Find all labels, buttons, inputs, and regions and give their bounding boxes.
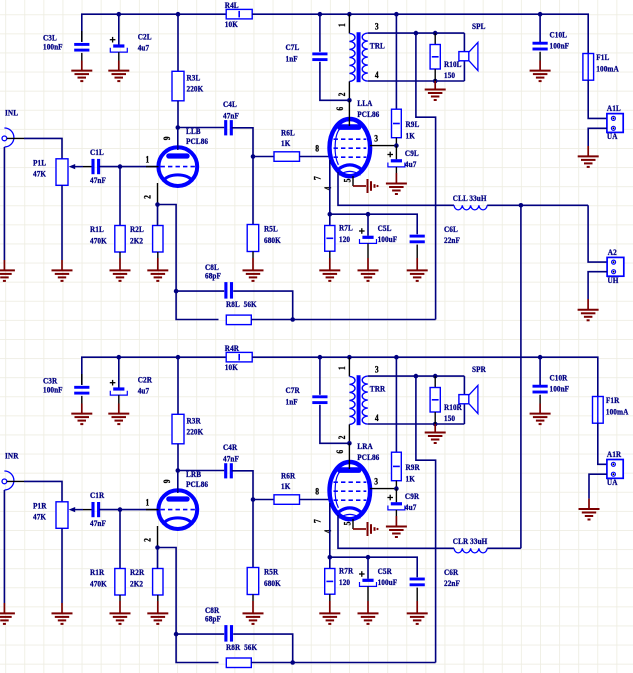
capacitor C8R bbox=[205, 606, 232, 642]
resistor R10R bbox=[430, 376, 462, 424]
svg-text:470K: 470K bbox=[90, 579, 107, 589]
junction bbox=[176, 12, 181, 17]
wire anode to C4 bbox=[178, 470, 225, 472]
wire R5 bottom bbox=[252, 595, 254, 602]
svg-text:47nF: 47nF bbox=[223, 454, 239, 464]
svg-text:100uF: 100uF bbox=[378, 235, 398, 245]
junction bbox=[394, 12, 399, 17]
svg-text:10K: 10K bbox=[225, 363, 239, 373]
svg-text:220K: 220K bbox=[187, 427, 204, 437]
wire R1 top bbox=[119, 167, 121, 226]
transformer TRR bbox=[337, 357, 385, 443]
svg-text:PCL86: PCL86 bbox=[186, 480, 208, 490]
wire pin9 anode bbox=[177, 471, 179, 494]
svg-text:3: 3 bbox=[374, 477, 378, 487]
wire B+ rail right segment bbox=[252, 357, 598, 396]
resistor R2L bbox=[130, 225, 163, 252]
svg-text:C7L: C7L bbox=[286, 43, 300, 53]
svg-text:8: 8 bbox=[315, 487, 319, 497]
junction bbox=[538, 12, 543, 17]
wire pin6 anode bbox=[348, 443, 350, 469]
svg-text:C4R: C4R bbox=[223, 443, 237, 453]
junction bbox=[155, 202, 160, 207]
wire R9 top bbox=[395, 14, 397, 109]
svg-text:R6R: R6R bbox=[281, 471, 295, 481]
wire C4 to grid node bbox=[232, 471, 253, 568]
svg-text:4: 4 bbox=[375, 413, 379, 423]
wire feedback tap bbox=[416, 33, 436, 319]
svg-text:R1L: R1L bbox=[90, 225, 104, 235]
connector A1L bbox=[607, 104, 623, 142]
svg-text:R5L: R5L bbox=[264, 224, 278, 234]
svg-text:CLR 33uH: CLR 33uH bbox=[453, 536, 488, 546]
svg-text:C1R: C1R bbox=[90, 491, 104, 501]
junction anode node bbox=[347, 441, 352, 446]
wire feedback tap bbox=[416, 376, 436, 662]
svg-text:INR: INR bbox=[5, 451, 19, 461]
wire R3 bottom bbox=[177, 444, 179, 471]
connector INR bbox=[2, 451, 24, 490]
svg-text:R2R: R2R bbox=[130, 568, 144, 578]
wire input to pot bbox=[24, 138, 62, 158]
capacitor C2R bbox=[110, 357, 152, 403]
capacitor C5L bbox=[359, 214, 397, 258]
ground bbox=[71, 404, 92, 425]
svg-text:6: 6 bbox=[336, 450, 346, 454]
svg-text:1: 1 bbox=[337, 23, 347, 27]
svg-text:47nF: 47nF bbox=[223, 111, 239, 121]
resistor R7R bbox=[325, 566, 354, 594]
junction bbox=[174, 632, 179, 637]
ground bbox=[578, 299, 599, 320]
junction bbox=[433, 374, 438, 379]
svg-text:7: 7 bbox=[313, 176, 323, 180]
connector A1R bbox=[607, 450, 623, 488]
svg-text:1: 1 bbox=[146, 155, 150, 165]
wire cathode bypass bus bbox=[330, 214, 417, 234]
triode LRB PCL86 section bbox=[143, 470, 208, 542]
svg-text:C9L: C9L bbox=[405, 149, 419, 159]
svg-text:C1L: C1L bbox=[90, 148, 104, 158]
svg-text:LLA: LLA bbox=[357, 99, 372, 109]
resistor R2R bbox=[130, 568, 163, 595]
svg-text:47nF: 47nF bbox=[90, 176, 106, 186]
svg-text:C9R: C9R bbox=[405, 492, 419, 502]
fuse F1L bbox=[583, 53, 619, 81]
svg-text:C6L: C6L bbox=[444, 224, 458, 234]
ground bbox=[0, 260, 15, 281]
svg-text:TRR: TRR bbox=[370, 384, 386, 394]
wire pin7 cathode bbox=[329, 503, 331, 569]
svg-text:47nF: 47nF bbox=[90, 519, 106, 529]
wire pin7 cathode bbox=[329, 160, 331, 226]
wire R3 top bbox=[177, 14, 179, 71]
ground bbox=[353, 522, 379, 536]
svg-text:2K2: 2K2 bbox=[130, 579, 143, 589]
resistor R8L bbox=[226, 300, 257, 325]
speaker SPR bbox=[459, 365, 486, 424]
svg-text:4u7: 4u7 bbox=[405, 159, 416, 169]
junction bbox=[155, 545, 160, 550]
ground bbox=[71, 61, 92, 82]
wire secondary top bbox=[368, 375, 465, 377]
wire pin1 grid bbox=[146, 509, 159, 511]
wire C7 top bbox=[319, 357, 321, 395]
wire R6 to pin8 bbox=[300, 156, 332, 158]
wire secondary bottom bbox=[368, 80, 465, 82]
ground bbox=[358, 258, 379, 281]
svg-text:2: 2 bbox=[337, 93, 347, 97]
ground bbox=[319, 601, 340, 624]
wire R1 bottom bbox=[119, 252, 121, 258]
ground bbox=[319, 258, 340, 281]
wire R2 link bbox=[157, 548, 159, 569]
wire pin5 heater bbox=[352, 519, 354, 529]
capacitor C3R bbox=[43, 374, 89, 404]
svg-text:7: 7 bbox=[313, 519, 323, 523]
svg-text:4: 4 bbox=[375, 70, 379, 80]
wire cathode bus bbox=[158, 548, 219, 663]
capacitor C9L bbox=[387, 146, 418, 173]
svg-text:47K: 47K bbox=[33, 512, 47, 522]
connector INL bbox=[2, 108, 24, 147]
svg-text:SPR: SPR bbox=[472, 365, 486, 375]
junction bbox=[433, 79, 438, 84]
svg-text:100nF: 100nF bbox=[550, 41, 570, 51]
capacitor C4L bbox=[223, 100, 239, 136]
svg-text:1: 1 bbox=[146, 498, 150, 508]
junction anode node bbox=[347, 98, 352, 103]
wire B+ rail right segment bbox=[252, 14, 588, 53]
svg-text:R4R: R4R bbox=[225, 344, 239, 354]
pentode LRA PCL86 section bbox=[313, 442, 379, 534]
ground bbox=[358, 601, 379, 624]
junction bbox=[347, 12, 352, 17]
ground bbox=[110, 258, 131, 281]
svg-text:UA: UA bbox=[607, 477, 618, 487]
wire pin5 heater bbox=[352, 176, 354, 186]
svg-text:1nF: 1nF bbox=[286, 397, 298, 407]
ground bbox=[243, 258, 264, 281]
wire R2 link bbox=[157, 205, 159, 226]
junction bbox=[117, 355, 122, 360]
svg-text:4u7: 4u7 bbox=[138, 386, 149, 396]
svg-text:R8L 56K: R8L 56K bbox=[226, 300, 257, 310]
wire R9 top bbox=[395, 357, 397, 452]
svg-text:2: 2 bbox=[337, 436, 347, 440]
junction bbox=[118, 164, 123, 169]
ground bbox=[52, 603, 73, 624]
wire R7 bottom bbox=[329, 251, 331, 258]
svg-text:TRL: TRL bbox=[370, 41, 385, 51]
ground bbox=[353, 179, 379, 193]
svg-text:R7L: R7L bbox=[339, 223, 353, 233]
svg-text:C10R: C10R bbox=[550, 373, 568, 383]
svg-text:R1R: R1R bbox=[90, 568, 104, 578]
ground bbox=[425, 81, 446, 100]
resistor R7L bbox=[325, 223, 353, 251]
inductor CLL 33uH bbox=[453, 193, 487, 209]
wire pin2 cathode bbox=[157, 526, 159, 548]
junction bbox=[347, 355, 352, 360]
svg-text:150: 150 bbox=[444, 413, 455, 423]
ground bbox=[0, 603, 15, 624]
capacitor C5R bbox=[359, 557, 397, 601]
svg-text:R2L: R2L bbox=[130, 225, 144, 235]
connector A2 bbox=[607, 247, 624, 285]
junction bbox=[117, 12, 122, 17]
resistor R5R bbox=[247, 567, 281, 594]
svg-text:470K: 470K bbox=[90, 236, 107, 246]
junction bbox=[176, 355, 181, 360]
svg-text:2: 2 bbox=[143, 195, 153, 199]
ground bbox=[147, 601, 168, 624]
wire jack shell bbox=[3, 490, 5, 603]
svg-text:R3R: R3R bbox=[187, 416, 201, 426]
svg-text:C4L: C4L bbox=[223, 100, 237, 110]
svg-text:C6R: C6R bbox=[444, 567, 458, 577]
ground bbox=[52, 260, 73, 281]
svg-text:F1L: F1L bbox=[596, 53, 609, 63]
svg-text:10K: 10K bbox=[225, 20, 239, 30]
wire C7 bottom to anode node bbox=[320, 405, 350, 444]
svg-text:22nF: 22nF bbox=[444, 579, 460, 589]
svg-text:47K: 47K bbox=[33, 169, 47, 179]
wire C7 top bbox=[319, 14, 321, 52]
resistor R5L bbox=[247, 224, 281, 251]
wire R1 top bbox=[119, 510, 121, 569]
wire pot bottom bbox=[61, 528, 63, 603]
junction bbox=[328, 555, 333, 560]
svg-text:PCL86: PCL86 bbox=[357, 109, 379, 119]
capacitor C7L bbox=[286, 43, 328, 64]
ground bbox=[425, 424, 446, 443]
svg-text:A2: A2 bbox=[608, 247, 617, 257]
junction bbox=[290, 317, 295, 322]
junction bbox=[176, 468, 181, 473]
svg-text:C5R: C5R bbox=[378, 566, 392, 576]
wire grid node to R6 bbox=[253, 156, 274, 158]
svg-text:4: 4 bbox=[323, 187, 333, 191]
svg-text:PCL86: PCL86 bbox=[357, 452, 379, 462]
svg-text:680K: 680K bbox=[264, 578, 281, 588]
svg-text:22nF: 22nF bbox=[444, 236, 460, 246]
svg-text:4: 4 bbox=[323, 530, 333, 534]
wire pin4 heater bbox=[338, 172, 454, 205]
fuse F1R bbox=[593, 396, 629, 424]
wire C8 left bbox=[176, 290, 224, 292]
junction bbox=[394, 355, 399, 360]
svg-text:R5R: R5R bbox=[264, 567, 278, 577]
junction bbox=[394, 486, 399, 491]
svg-text:100nF: 100nF bbox=[43, 42, 63, 52]
junction bbox=[318, 12, 323, 17]
wire C8 right bbox=[233, 634, 293, 662]
wire jack shell bbox=[3, 147, 5, 260]
svg-text:120: 120 bbox=[339, 577, 350, 587]
svg-text:220K: 220K bbox=[187, 84, 204, 94]
ground bbox=[530, 404, 551, 425]
wire C8 left bbox=[176, 633, 224, 635]
wire R3 top bbox=[177, 357, 179, 414]
wire cathode bus bbox=[158, 205, 219, 320]
triode LLB PCL86 section bbox=[143, 127, 208, 199]
wire grid node to R6 bbox=[253, 499, 274, 501]
svg-text:SPL: SPL bbox=[472, 22, 486, 32]
svg-text:1K: 1K bbox=[281, 139, 291, 149]
svg-text:LRA: LRA bbox=[357, 442, 373, 452]
wire pot bottom bbox=[61, 185, 63, 260]
wire B+ rail left segment bbox=[82, 14, 226, 42]
svg-text:P1L: P1L bbox=[33, 158, 46, 168]
wire pin9 anode bbox=[177, 128, 179, 151]
capacitor C10R bbox=[533, 357, 570, 403]
svg-text:2: 2 bbox=[143, 538, 153, 542]
capacitor C6R bbox=[410, 567, 460, 601]
resistor R10L bbox=[430, 33, 461, 81]
inductor CLR 33uH bbox=[453, 536, 488, 552]
svg-text:R8R 56K: R8R 56K bbox=[226, 643, 258, 653]
wire A2 top pin bbox=[588, 205, 607, 262]
wire R3 bottom bbox=[177, 101, 179, 128]
wire A1 pin2 to ground bbox=[588, 128, 607, 146]
junction bbox=[538, 355, 543, 360]
svg-text:150: 150 bbox=[444, 70, 455, 80]
junction bbox=[290, 660, 295, 665]
capacitor C2L bbox=[110, 14, 152, 60]
wire heater shared drop bbox=[520, 205, 522, 548]
ground bbox=[108, 404, 129, 425]
svg-text:100uF: 100uF bbox=[378, 578, 398, 588]
wire pin6 anode bbox=[348, 100, 350, 126]
svg-text:UH: UH bbox=[608, 276, 620, 286]
svg-text:C2L: C2L bbox=[138, 32, 152, 42]
svg-text:C7R: C7R bbox=[286, 386, 300, 396]
svg-text:C2R: C2R bbox=[138, 375, 152, 385]
svg-text:CLL 33uH: CLL 33uH bbox=[453, 193, 487, 203]
transformer TRL bbox=[337, 14, 385, 100]
svg-text:C10L: C10L bbox=[550, 30, 568, 40]
svg-text:68pF: 68pF bbox=[205, 614, 221, 624]
potentiometer P1L bbox=[33, 158, 83, 185]
resistor R3R bbox=[172, 414, 204, 444]
wire R9 bottom bbox=[395, 481, 397, 489]
svg-text:1K: 1K bbox=[281, 482, 291, 492]
capacitor C4R bbox=[223, 443, 239, 479]
svg-text:R4L: R4L bbox=[225, 1, 239, 11]
ground bbox=[407, 258, 428, 281]
svg-text:1nF: 1nF bbox=[286, 54, 298, 64]
wire C7 bottom to anode node bbox=[320, 62, 350, 101]
resistor R4L bbox=[225, 1, 252, 30]
junction bbox=[414, 31, 419, 36]
ground bbox=[407, 601, 428, 624]
svg-text:3: 3 bbox=[375, 365, 379, 375]
capacitor C7R bbox=[286, 386, 328, 407]
svg-text:1K: 1K bbox=[406, 474, 416, 484]
ground bbox=[147, 258, 168, 281]
resistor R6R bbox=[274, 471, 300, 504]
wire R2 bottom bbox=[157, 595, 159, 601]
svg-text:3: 3 bbox=[374, 134, 378, 144]
junction heater node bbox=[519, 203, 524, 208]
capacitor C1L bbox=[83, 148, 106, 186]
svg-text:A1R: A1R bbox=[607, 450, 621, 460]
resistor R8R bbox=[226, 643, 258, 668]
ground bbox=[110, 601, 131, 624]
wire pin2 cathode bbox=[157, 183, 159, 205]
wire R1 bottom bbox=[119, 595, 121, 601]
wire R7 bottom bbox=[329, 594, 331, 601]
svg-text:A1L: A1L bbox=[607, 104, 621, 114]
svg-text:100nF: 100nF bbox=[43, 385, 63, 395]
junction bbox=[366, 212, 371, 217]
svg-text:R9L: R9L bbox=[406, 120, 420, 130]
capacitor C1R bbox=[83, 491, 106, 529]
wire input to pot bbox=[24, 481, 62, 501]
svg-text:68pF: 68pF bbox=[205, 271, 221, 281]
svg-text:100nF: 100nF bbox=[550, 384, 570, 394]
resistor R3L bbox=[172, 71, 204, 101]
junction bbox=[433, 422, 438, 427]
resistor R4R bbox=[225, 344, 252, 373]
junction bbox=[174, 289, 179, 294]
resistor R1R bbox=[90, 568, 125, 595]
wire R2 bottom bbox=[157, 252, 159, 258]
ground bbox=[530, 61, 551, 82]
wire pin3 screen bbox=[370, 488, 397, 490]
svg-text:2K2: 2K2 bbox=[130, 236, 143, 246]
wire F1 to A1 bbox=[588, 80, 607, 118]
wire R5 bottom bbox=[252, 252, 254, 259]
wire anode to C4 bbox=[178, 127, 225, 129]
wire pin1 grid bbox=[146, 166, 159, 168]
wire A1 pin2 to ground bbox=[589, 474, 607, 498]
svg-text:9: 9 bbox=[163, 136, 173, 140]
svg-text:R7R: R7R bbox=[339, 566, 353, 576]
junction bbox=[251, 497, 256, 502]
svg-text:P1R: P1R bbox=[33, 501, 47, 511]
wire A2 pin2 to ground bbox=[588, 272, 607, 299]
potentiometer P1R bbox=[33, 501, 83, 528]
svg-text:4u7: 4u7 bbox=[138, 43, 149, 53]
capacitor C3L bbox=[43, 31, 89, 61]
capacitor C10L bbox=[533, 14, 570, 60]
resistor R9R bbox=[392, 452, 420, 483]
ground bbox=[386, 516, 407, 537]
wire C1 to grid bbox=[99, 166, 158, 168]
svg-text:5: 5 bbox=[343, 179, 353, 183]
svg-text:C5L: C5L bbox=[378, 223, 392, 233]
svg-text:R6L: R6L bbox=[281, 128, 295, 138]
svg-text:5: 5 bbox=[343, 522, 353, 526]
junction bbox=[318, 355, 323, 360]
ground bbox=[578, 146, 599, 167]
wire F1 to A1 bbox=[598, 423, 607, 464]
svg-text:INL: INL bbox=[5, 108, 18, 118]
wire secondary bottom bbox=[368, 423, 465, 425]
svg-text:9: 9 bbox=[163, 479, 173, 483]
wire C4 to grid node bbox=[232, 128, 253, 225]
wire C1 to grid bbox=[99, 509, 158, 511]
ground bbox=[386, 173, 407, 194]
wire pin3 screen bbox=[370, 145, 397, 147]
junction bbox=[394, 143, 399, 148]
wire R6 to pin8 bbox=[300, 499, 332, 501]
svg-text:R9R: R9R bbox=[406, 463, 420, 473]
svg-text:3: 3 bbox=[375, 22, 379, 32]
svg-text:R3L: R3L bbox=[187, 73, 201, 83]
